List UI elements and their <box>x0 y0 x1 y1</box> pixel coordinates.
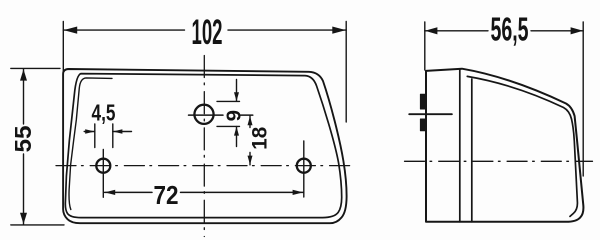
dimension 9: dimension line with outside arrows <box>236 80 238 147</box>
dimension 56,5: extension lines <box>425 22 583 176</box>
dimension 56,5: dimension line <box>425 30 583 32</box>
svg-text:102: 102 <box>192 13 223 52</box>
side view screw axis line <box>409 113 452 115</box>
dimension 4,5: extension lines (hole diameter) <box>95 124 113 148</box>
dimension 102: extension lines <box>62 22 64 77</box>
dimension 72: arrowheads <box>105 190 304 195</box>
horizontal dash-dot centreline through mounting holes <box>56 165 355 167</box>
dimension 56,5: arrowheads <box>425 27 583 34</box>
svg-text:9: 9 <box>222 110 245 121</box>
dimension 55: dimension line <box>23 69 25 225</box>
side view rubber grommet (filled) <box>420 94 426 131</box>
side view housing/lens joint line <box>459 69 461 222</box>
left hole vertical centreline <box>102 150 104 198</box>
side view horizontal dash-dot centreline <box>405 160 593 162</box>
centre hole horizontal centreline <box>189 114 253 116</box>
svg-text:55: 55 <box>10 125 36 152</box>
side view lens edge vertical <box>471 79 473 222</box>
svg-text:72: 72 <box>154 180 179 210</box>
lamp housing front view inner (lens seal) contour <box>65 74 341 218</box>
dimension 102: dimension line <box>63 29 346 31</box>
left mounting hole <box>96 159 110 173</box>
lamp lens face third line (top-left) <box>69 78 112 210</box>
dimension 72: dimension line <box>105 191 304 193</box>
dimension 4,5: arrowheads <box>85 129 122 134</box>
dimension 4,5: dimension line stubs <box>84 131 131 133</box>
svg-text:18: 18 <box>249 126 272 149</box>
side view outer contour <box>426 69 583 222</box>
right hole vertical centreline <box>303 141 305 197</box>
dimension 18: dimension line with inside arrows <box>249 116 251 165</box>
svg-text:56,5: 56,5 <box>491 10 529 47</box>
dimension 55: extension lines <box>11 67 60 69</box>
right mounting hole <box>297 159 311 173</box>
vertical dash-dot centreline of front view <box>203 56 205 237</box>
lamp housing front view outer contour <box>63 69 347 223</box>
dimension 9: extension ticks <box>217 101 240 126</box>
dimension 55: arrowheads <box>20 69 27 224</box>
side view lens inner line <box>467 76 577 216</box>
dimension 102: arrowheads <box>64 27 346 34</box>
centre hole (lamp aperture) <box>194 105 213 124</box>
svg-text:4,5: 4,5 <box>92 100 116 126</box>
